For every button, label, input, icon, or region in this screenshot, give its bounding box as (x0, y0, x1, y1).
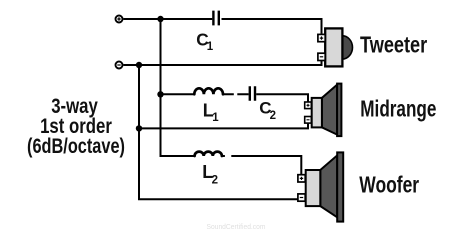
svg-text:(6dB/octave): (6dB/octave) (27, 135, 125, 158)
svg-text:1: 1 (212, 112, 219, 124)
svg-text:2: 2 (270, 110, 276, 122)
svg-text:1: 1 (207, 41, 214, 53)
svg-text:SoundCertified.com: SoundCertified.com (207, 222, 266, 231)
svg-text:Woofer: Woofer (359, 171, 419, 197)
svg-text:Tweeter: Tweeter (360, 32, 427, 58)
svg-text:Midrange: Midrange (360, 95, 436, 121)
svg-text:2: 2 (212, 175, 218, 187)
